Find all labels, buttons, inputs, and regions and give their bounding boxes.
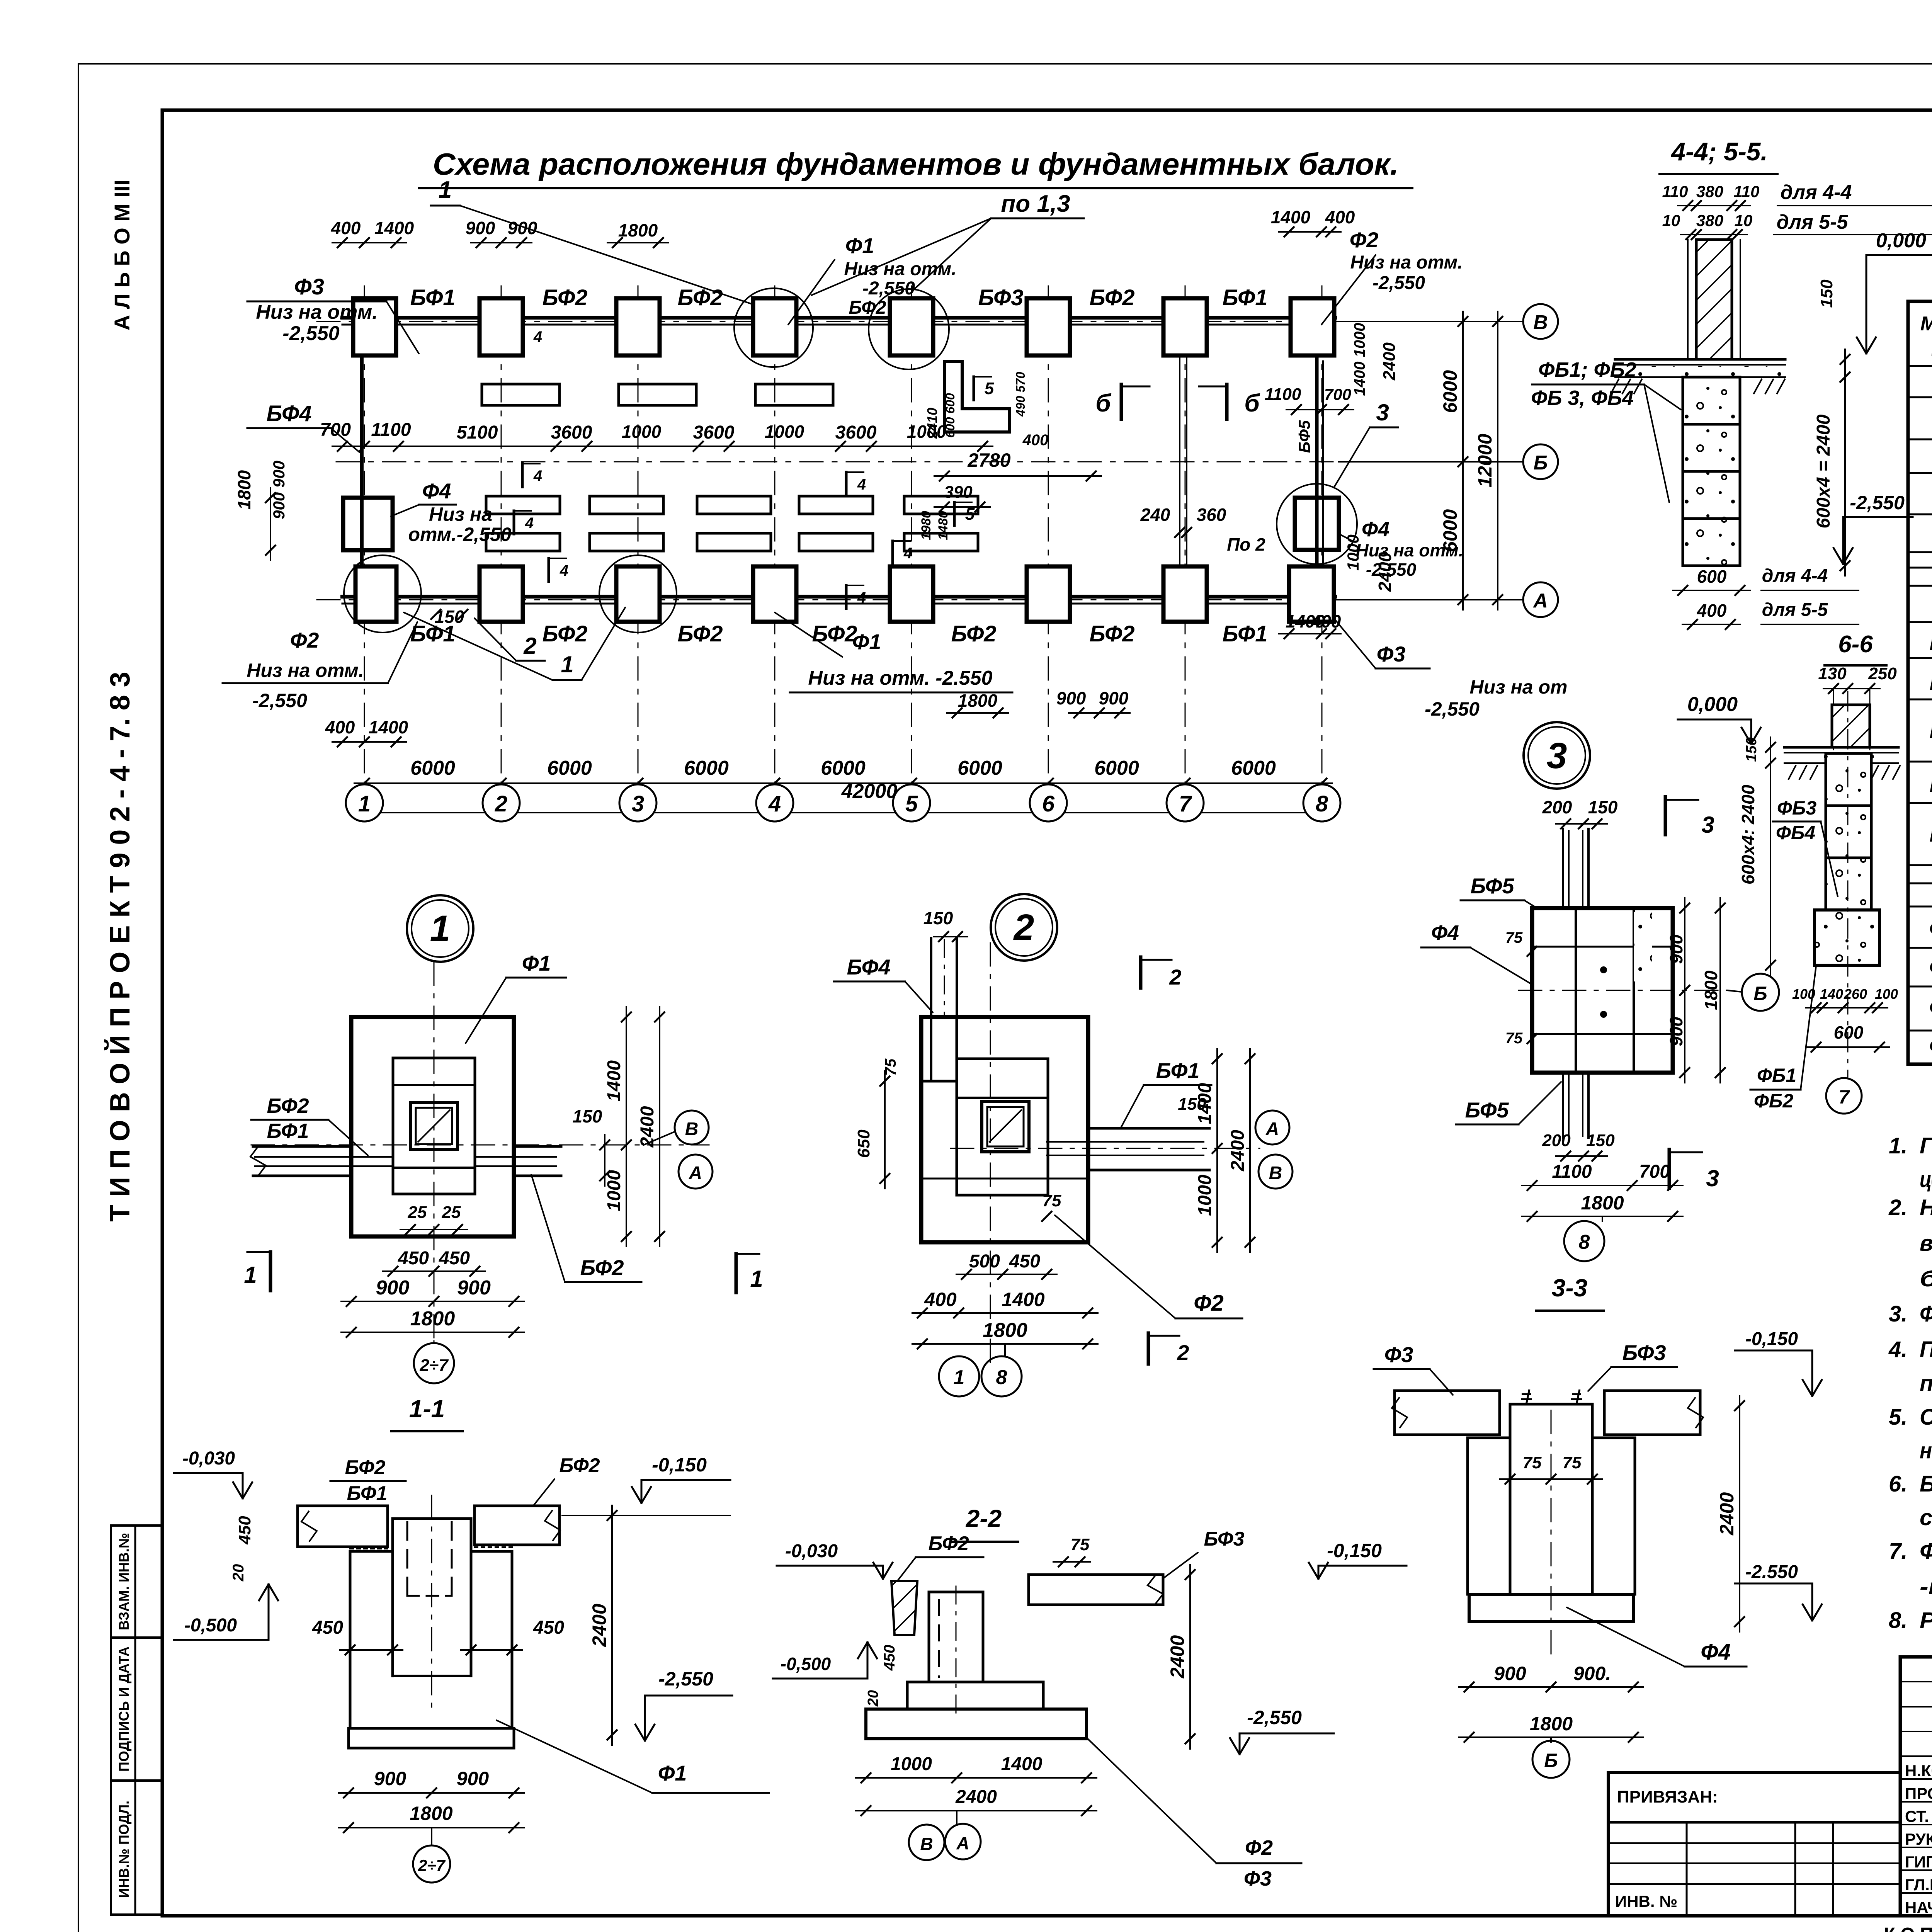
svg-text:2.: 2.: [1888, 1195, 1907, 1220]
svg-text:БФ2: БФ2: [560, 1454, 600, 1477]
svg-text:Ф4: Ф4: [1431, 921, 1459, 944]
svg-text:400: 400: [1022, 432, 1049, 449]
svg-text:4: 4: [903, 545, 912, 562]
svg-text:для 4-4: для 4-4: [1781, 181, 1852, 204]
row Б foundations Ф4: [343, 498, 393, 550]
section 1-1 wide body: [349, 1551, 352, 1728]
svg-text:1100: 1100: [1265, 385, 1301, 404]
node 3 center line: [1519, 990, 1727, 991]
svg-text:-0,030: -0,030: [182, 1448, 235, 1469]
section 3-3 level -2.550: [1735, 1583, 1812, 1585]
svg-text:6000: 6000: [1231, 757, 1276, 779]
svg-text:ФБ2: ФБ2: [1929, 955, 1932, 979]
svg-text:-0,030: -0,030: [785, 1541, 838, 1561]
svg-text:ПРОВЕР.: ПРОВЕР.: [1905, 1784, 1932, 1803]
section 3-3 level -0,150: [1735, 1350, 1812, 1352]
node 2 beam БФ1 right: [1088, 1127, 1209, 1130]
title block left rows: [1900, 1681, 1932, 1682]
svg-text:-2,550: -2,550: [658, 1668, 713, 1690]
svg-text:Низ на отм.: Низ на отм.: [256, 301, 378, 323]
svg-text:400: 400: [1697, 600, 1727, 621]
node 3 upper beams БФ5: [1562, 829, 1564, 908]
svg-text:2400: 2400: [1167, 1635, 1188, 1679]
total dim 42000: [354, 812, 1332, 813]
svg-text:42000: 42000: [841, 780, 898, 803]
svg-text:Ф4: Ф4: [1362, 518, 1389, 541]
section 3-3 right beam: [1604, 1391, 1700, 1435]
svg-text:75: 75: [1043, 1191, 1061, 1210]
svg-text:БФ1: БФ1: [1222, 285, 1267, 310]
svg-text:450: 450: [533, 1617, 564, 1638]
svg-text:1: 1: [954, 1366, 965, 1389]
svg-text:400: 400: [331, 218, 361, 238]
svg-text:650: 650: [854, 1129, 873, 1158]
svg-text:1800: 1800: [958, 690, 998, 711]
svg-text:12000: 12000: [1474, 434, 1496, 487]
svg-text:ФБ4: ФБ4: [1776, 822, 1815, 844]
svg-text:Б: Б: [1534, 452, 1548, 474]
svg-text:1: 1: [750, 1266, 763, 1292]
svg-text:БФ1: БФ1: [410, 285, 455, 310]
svg-text:А: А: [689, 1163, 702, 1184]
node 2 stub pocket: [956, 1017, 958, 1081]
svg-text:БФ2: БФ2: [929, 1532, 969, 1555]
svg-text:4: 4: [533, 328, 542, 345]
svg-text:По 2: По 2: [1227, 534, 1265, 554]
section 3-3 pier: [1509, 1404, 1512, 1594]
svg-text:10: 10: [1735, 211, 1753, 230]
svg-text:ФБ1; ФБ2: ФБ1; ФБ2: [1538, 358, 1636, 381]
svg-text:1400: 1400: [369, 717, 408, 737]
svg-text:150: 150: [1743, 737, 1760, 762]
svg-text:Ф4: Ф4: [1701, 1639, 1731, 1665]
plan row line Б: [336, 461, 1522, 463]
svg-text:25: 25: [408, 1203, 427, 1222]
svg-text:-2.550: -2.550: [1745, 1562, 1798, 1582]
dims 1100 700 near axis 8: [1286, 409, 1354, 410]
svg-text:140: 140: [1820, 986, 1843, 1002]
svg-text:1400: 1400: [604, 1060, 624, 1102]
section 3-3 left beam: [1395, 1391, 1500, 1435]
svg-text:900.: 900.: [1573, 1663, 1611, 1684]
svg-text:4: 4: [768, 791, 781, 816]
svg-text:-0,150: -0,150: [1745, 1329, 1798, 1349]
section 3-3 circle Б: [1550, 1737, 1552, 1742]
svg-text:1400 1000: 1400 1000: [1351, 323, 1368, 396]
svg-text:700: 700: [1324, 385, 1351, 403]
svg-text:БФ3: БФ3: [978, 285, 1023, 310]
svg-text:900: 900: [1056, 688, 1086, 708]
svg-text:8.: 8.: [1889, 1608, 1907, 1633]
svg-text:2400: 2400: [1380, 342, 1399, 381]
vertical beam БФ4 axis 1: [360, 355, 364, 565]
node 3 bottom circle 8: [1602, 1216, 1603, 1221]
svg-text:2÷7: 2÷7: [419, 1356, 449, 1375]
title block outline: [1900, 1657, 1932, 1916]
svg-text:БФ5: БФ5: [1929, 822, 1932, 846]
section 1-1 left beam БФ2/БФ1: [298, 1506, 388, 1547]
node 3 speckle patches: [1634, 912, 1652, 981]
svg-text:1400: 1400: [1001, 1754, 1043, 1774]
svg-text:отм.-2,550: отм.-2,550: [408, 524, 512, 545]
svg-text:2-2: 2-2: [966, 1505, 1002, 1532]
node 2 bottom dims: [956, 1274, 1057, 1275]
svg-text:БФ2: БФ2: [1929, 670, 1932, 695]
svg-text:Низ на от: Низ на от: [1470, 676, 1568, 698]
svg-text:балок.: балок.: [1920, 1266, 1932, 1291]
svg-text:А: А: [1265, 1119, 1279, 1139]
svg-text:Ф3: Ф3: [1377, 642, 1406, 666]
svg-text:НАЧ.ОТД: НАЧ.ОТД: [1905, 1898, 1932, 1917]
svg-text:1800: 1800: [1530, 1713, 1573, 1735]
svg-text:900: 900: [466, 218, 495, 238]
svg-text:Ф2: Ф2: [1245, 1836, 1273, 1859]
svg-text:1: 1: [430, 908, 451, 949]
dim chain above row В left: [332, 242, 406, 243]
svg-text:1800: 1800: [1581, 1192, 1624, 1214]
svg-text:ВЗАМ. ИНВ.№: ВЗАМ. ИНВ.№: [116, 1533, 132, 1630]
section 3-3 center line: [1551, 1410, 1552, 1662]
svg-text:2: 2: [495, 791, 507, 816]
svg-text:Ф2: Ф2: [1194, 1291, 1224, 1316]
svg-text:1800: 1800: [983, 1319, 1027, 1342]
svg-text:Низ на отм.: Низ на отм.: [1350, 252, 1463, 273]
svg-text:А: А: [1532, 590, 1548, 612]
svg-text:БФ1: БФ1: [1156, 1058, 1199, 1083]
svg-text:130: 130: [1818, 664, 1847, 683]
svg-text:для 4-4: для 4-4: [1762, 566, 1828, 586]
svg-text:Бетонные столбики под фундамен: Бетонные столбики под фундаментные балки…: [1920, 1471, 1932, 1497]
svg-text:900: 900: [457, 1277, 491, 1299]
row В foundation beams (double line): [342, 316, 1335, 320]
svg-text:БФ4: БФ4: [847, 955, 890, 979]
svg-text:600х4: 2400: 600х4: 2400: [1738, 784, 1758, 884]
svg-text:-2,550: -2,550: [282, 322, 340, 345]
plan column axis lines: [364, 286, 365, 784]
svg-text:7: 7: [1179, 791, 1192, 816]
node 1 bottom mark 2:7: [434, 1341, 435, 1343]
svg-text:4: 4: [533, 468, 542, 485]
svg-text:-0,500: -0,500: [184, 1615, 237, 1636]
svg-text:150: 150: [1178, 1095, 1206, 1114]
svg-text:3: 3: [1547, 735, 1567, 776]
svg-text:Низ на отм. -2.550: Низ на отм. -2.550: [808, 667, 992, 689]
4-4 foundation blocks stack: [1683, 377, 1740, 424]
4-4 floor slab lines: [1615, 358, 1785, 361]
svg-text:1400: 1400: [374, 218, 414, 238]
node 3 inner pier: [1576, 908, 1634, 1073]
svg-text:900: 900: [376, 1277, 410, 1299]
svg-text:25: 25: [442, 1203, 461, 1222]
svg-text:БФ2: БФ2: [542, 621, 587, 646]
svg-text:Н.КОНТР.: Н.КОНТР.: [1905, 1762, 1932, 1780]
svg-text:1100: 1100: [371, 420, 411, 440]
svg-text:Низ на отм.: Низ на отм.: [247, 660, 364, 681]
svg-text:Ф3: Ф3: [1384, 1342, 1413, 1367]
svg-text:Фундаментные балки укладывать: Фундаментные балки укладывать на цементн…: [1920, 1301, 1932, 1327]
svg-text:ФБ1: ФБ1: [1929, 916, 1932, 940]
svg-text:А: А: [956, 1833, 969, 1853]
svg-text:1000: 1000: [604, 1170, 624, 1211]
svg-text:2780: 2780: [967, 449, 1010, 471]
node 1 row circles В А: [644, 1131, 675, 1145]
svg-text:-2,550: -2,550: [1425, 698, 1480, 720]
section 2-2 hatched beam БФ2 cross-section: [891, 1581, 917, 1635]
svg-text:450: 450: [881, 1645, 898, 1671]
svg-text:1: 1: [439, 177, 452, 203]
svg-text:380: 380: [1696, 211, 1723, 230]
row В foundations Ф3/Ф1: [353, 298, 396, 355]
svg-text:490 570: 490 570: [1014, 372, 1027, 417]
6-6 wall hatched: [1832, 705, 1870, 747]
svg-text:200: 200: [1542, 797, 1572, 817]
svg-text:700: 700: [320, 420, 351, 440]
svg-text:150: 150: [1817, 279, 1836, 308]
section 1-1 bottom mark 2:7: [431, 1828, 432, 1845]
svg-text:подготовку из бетона М50, толщ: подготовку из бетона М50, толщиной 100 м…: [1920, 1371, 1932, 1396]
svg-text:1800: 1800: [1701, 970, 1721, 1010]
6-6 base block: [1815, 910, 1879, 965]
svg-text:600: 600: [1834, 1022, 1864, 1043]
section 1-1 bottom dims: [338, 1792, 524, 1794]
svg-text:400: 400: [1325, 207, 1355, 227]
svg-text:1: 1: [244, 1262, 257, 1288]
svg-text:ИНВ. №: ИНВ. №: [1615, 1892, 1677, 1910]
svg-text:110: 110: [1734, 182, 1760, 201]
4-4 bottom dims: [1673, 590, 1750, 591]
svg-text:Ф1: Ф1: [658, 1761, 687, 1785]
section 1-1 dim 2400: [611, 1505, 613, 1745]
svg-text:б: б: [1244, 389, 1260, 417]
svg-text:6000: 6000: [410, 757, 455, 779]
svg-text:Горизонтальную гидроизоляцию с: Горизонтальную гидроизоляцию стен выполн…: [1920, 1133, 1932, 1158]
internal foundation beam bars row 2: [486, 533, 560, 551]
привязан box: [1608, 1772, 1900, 1916]
svg-text:1: 1: [358, 791, 371, 816]
L-shaped monolithic strip near axis 5: [944, 362, 1009, 432]
svg-text:б: б: [1095, 389, 1112, 417]
spec table grid: [1908, 301, 1932, 1064]
node 3 lower beams БФ5: [1562, 1073, 1564, 1138]
node 3 section marks 3: [1664, 797, 1667, 835]
svg-text:380: 380: [1696, 182, 1723, 201]
svg-text:БФ1: БФ1: [1222, 621, 1267, 646]
svg-text:700: 700: [1639, 1162, 1670, 1182]
6-6 center line: [1847, 692, 1849, 1078]
node 2 right dim chains: [1216, 1049, 1218, 1252]
svg-text:900: 900: [1666, 934, 1686, 964]
svg-text:Т И П О В О Й П Р О Е К Т: Т И П О В О Й П Р О Е К Т 9 0 2 - 4 - 7.…: [104, 672, 136, 1221]
svg-text:БФ2: БФ2: [951, 621, 996, 646]
node 3 row circle Б: [1727, 990, 1742, 992]
row А foundation beams (double line): [342, 595, 1335, 599]
section 1-1 pier: [391, 1519, 394, 1676]
svg-text:ГЛ.КОНСТР: ГЛ.КОНСТР: [1905, 1876, 1932, 1894]
svg-text:450: 450: [1009, 1251, 1040, 1272]
svg-text:3: 3: [1701, 812, 1714, 838]
node 1 beams right: [514, 1145, 561, 1148]
axis circles 1-8: [346, 784, 383, 821]
svg-text:-песчаном растворе марки 200.: -песчаном растворе марки 200.: [1920, 1574, 1932, 1599]
svg-text:ФБ4: ФБ4: [1929, 1034, 1932, 1058]
section 2-2 circles В А: [956, 1811, 957, 1825]
svg-text:БФ3: БФ3: [1204, 1528, 1245, 1550]
node 3 foundation Ф4 square: [1532, 908, 1673, 1073]
svg-text:1.: 1.: [1889, 1133, 1907, 1158]
svg-text:Обратную засыпку производить г: Обратную засыпку производить грунтом без…: [1920, 1405, 1932, 1430]
svg-text:1000: 1000: [765, 422, 804, 442]
svg-text:3.: 3.: [1889, 1301, 1907, 1327]
svg-text:К О П И Р О В А Л : Л О Г И: К О П И Р О В А Л : Л О Г И Н О В А: [1884, 1924, 1932, 1932]
svg-text:ФБ 3, ФБ4: ФБ 3, ФБ4: [1531, 386, 1634, 410]
svg-text:100: 100: [1875, 986, 1898, 1002]
svg-text:10: 10: [1662, 211, 1680, 230]
ground hatch left/right of foundation: [1611, 379, 1785, 394]
svg-text:1800: 1800: [234, 470, 254, 510]
svg-text:Марка: Марка: [1920, 313, 1932, 335]
svg-text:75: 75: [1505, 929, 1523, 946]
svg-text:110: 110: [1662, 182, 1688, 201]
section 1-1 base slab: [349, 1728, 514, 1748]
svg-text:-2,550: -2,550: [1247, 1707, 1302, 1728]
svg-text:4: 4: [857, 476, 866, 493]
svg-text:1000: 1000: [891, 1754, 932, 1774]
svg-text:75: 75: [1505, 1030, 1523, 1047]
svg-text:1100: 1100: [1552, 1162, 1592, 1182]
axis dim chain 6000 x7: [354, 782, 1332, 784]
4-4 dim 600x4=2400: [1844, 367, 1846, 576]
svg-text:20: 20: [230, 1564, 247, 1582]
svg-text:Б: Б: [1753, 983, 1767, 1004]
svg-text:для 5-5: для 5-5: [1762, 600, 1828, 620]
svg-text:900: 900: [457, 1768, 489, 1789]
svg-text:БФ1: БФ1: [1929, 630, 1932, 655]
svg-text:5: 5: [905, 791, 918, 816]
svg-text:БФ2: БФ2: [677, 285, 723, 310]
svg-text:ГИП: ГИП: [1905, 1853, 1932, 1871]
svg-text:Ф1: Ф1: [852, 629, 881, 654]
svg-text:БФ2: БФ2: [345, 1456, 386, 1479]
svg-text:3600: 3600: [551, 422, 592, 443]
node 3 bottom dims: [1522, 1185, 1683, 1186]
svg-text:БФ2: БФ2: [849, 298, 886, 318]
svg-text:Низ на отм.: Низ на отм.: [1356, 540, 1464, 560]
node 2 beam БФ4 vertical: [930, 938, 932, 1078]
node 2 title circle: [991, 894, 1057, 961]
svg-text:1000: 1000: [907, 422, 947, 442]
svg-text:ФБ2: ФБ2: [1754, 1090, 1793, 1112]
plan row line В: [317, 321, 1522, 322]
svg-text:6-6: 6-6: [1838, 631, 1873, 658]
node 1 section marks 1-1: [269, 1252, 272, 1291]
row dim chains 6000/6000/12000: [1462, 311, 1464, 610]
svg-text:1: 1: [561, 651, 573, 677]
section 3-3 hatch marks on pier top: [1521, 1389, 1582, 1404]
svg-text:-2,550: -2,550: [252, 690, 307, 711]
svg-text:75: 75: [1523, 1453, 1542, 1472]
dim chain below row В: [332, 446, 993, 447]
svg-text:БФ2: БФ2: [677, 621, 723, 646]
svg-text:Фундаментные блоки укладывать: Фундаментные блоки укладывать с перевязк…: [1920, 1539, 1932, 1564]
svg-text:СТ. ИНЖ.: СТ. ИНЖ.: [1905, 1807, 1932, 1825]
svg-text:6000: 6000: [1439, 370, 1461, 413]
section 2-2 bottom dims: [856, 1777, 1097, 1779]
section marks 4 on bars: [521, 325, 524, 348]
section marks 5 near L-shape: [973, 377, 975, 400]
section 1-1 right beam БФ2: [474, 1506, 560, 1545]
node 2 row circles А В: [1255, 1111, 1289, 1145]
svg-text:1480: 1480: [936, 511, 951, 540]
vertical beam pair axis 7 (Б-Б cut): [1179, 355, 1180, 565]
section 3-3 base slab: [1469, 1594, 1633, 1622]
svg-text:ПРИВЯЗАН:: ПРИВЯЗАН:: [1617, 1787, 1718, 1806]
svg-text:600x4 = 2400: 600x4 = 2400: [1813, 414, 1834, 528]
svg-text:4.: 4.: [1888, 1337, 1907, 1362]
node 1 beams left (БФ2/БФ1): [253, 1145, 351, 1148]
section 1-1 centerline: [431, 1495, 432, 1712]
node circles on plan (узлы 1 и 3): [734, 288, 813, 367]
svg-text:4: 4: [560, 562, 568, 579]
svg-text:75: 75: [1071, 1535, 1090, 1554]
svg-text:6: 6: [1042, 791, 1055, 816]
svg-text:-2,550: -2,550: [1372, 273, 1425, 293]
svg-text:БФ5: БФ5: [1295, 420, 1313, 453]
node 1 title circle: [407, 895, 473, 962]
svg-text:500: 500: [969, 1251, 1000, 1272]
node 1 foundation Ф1 outer square: [351, 1017, 514, 1236]
section 2-2 dim 2400: [1189, 1565, 1191, 1749]
stub walls below row В foundations: [482, 384, 560, 405]
svg-text:Ф3: Ф3: [294, 274, 324, 299]
svg-text:1400: 1400: [1002, 1289, 1044, 1310]
svg-text:450: 450: [235, 1516, 254, 1545]
node 2 section marks 2: [1139, 957, 1143, 988]
svg-text:360: 360: [1197, 505, 1226, 525]
svg-text:6000: 6000: [957, 757, 1002, 779]
svg-text:Набетонку по верху стаканной ч: Набетонку по верху стаканной части фунда…: [1920, 1195, 1932, 1220]
svg-text:900: 900: [374, 1768, 406, 1789]
section 2-2 upper step: [907, 1682, 1043, 1709]
svg-text:450: 450: [398, 1248, 429, 1269]
svg-text:2: 2: [523, 633, 536, 659]
svg-text:3: 3: [1376, 400, 1389, 425]
6-6 circle 7: [1826, 1078, 1862, 1114]
svg-text:200: 200: [1542, 1131, 1571, 1150]
svg-text:1800: 1800: [618, 220, 658, 240]
section 3-3 bottom dims: [1459, 1686, 1643, 1688]
svg-text:6000: 6000: [684, 757, 729, 779]
svg-text:Низ на: Низ на: [429, 503, 492, 525]
svg-text:6000: 6000: [821, 757, 866, 779]
node 3 right dim chains 900 900 1800: [1684, 898, 1685, 1083]
svg-text:БФ2: БФ2: [267, 1094, 309, 1117]
svg-text:5: 5: [985, 379, 994, 398]
svg-text:ФБ1: ФБ1: [1757, 1065, 1796, 1086]
svg-text:400: 400: [924, 1289, 957, 1310]
svg-text:выполнять из бетона марки 100: выполнять из бетона марки 100 после монт…: [1920, 1231, 1932, 1256]
svg-text:8: 8: [996, 1366, 1007, 1389]
row А foundations: [355, 566, 396, 622]
svg-text:600: 600: [1697, 566, 1727, 587]
svg-text:6000: 6000: [1094, 757, 1139, 779]
node 2 center lines: [951, 1148, 1260, 1149]
svg-text:совместно с фундаментами под к: совместно с фундаментами под колонны.: [1920, 1505, 1932, 1530]
node 2 stakan: [982, 1102, 1029, 1152]
svg-text:Ф1: Ф1: [845, 233, 874, 258]
svg-text:2400: 2400: [1375, 552, 1395, 592]
svg-text:4: 4: [857, 589, 866, 606]
svg-text:Ф2: Ф2: [290, 628, 319, 652]
